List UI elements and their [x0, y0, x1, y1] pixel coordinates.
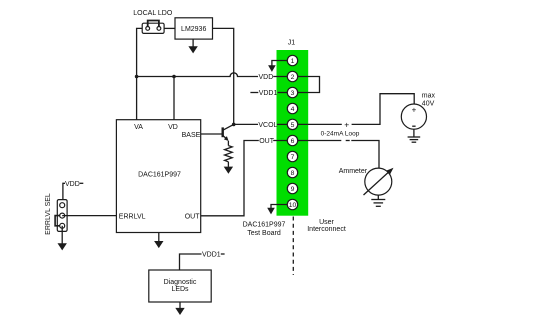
- transistor Q1 emitter: [223, 135, 227, 138]
- svg-text:ERRLVL: ERRLVL: [119, 213, 146, 220]
- wire VDD1 tail dash: [221, 253, 225, 255]
- wire source to ground: [413, 129, 415, 137]
- svg-text:VDD: VDD: [259, 74, 274, 81]
- wire resistor to ground arrow: [227, 162, 229, 167]
- wire VDD rail with hop over LDO output: [137, 73, 258, 77]
- wire jumper pin2-pin3: [293, 77, 320, 93]
- ground arrow below header: [58, 243, 67, 250]
- svg-text:8: 8: [291, 170, 295, 177]
- jumper JP1 shunt cap: [148, 21, 159, 29]
- wire loop plus to source: [352, 94, 415, 125]
- wire VDD1 stub (pin3): [250, 92, 258, 94]
- regulator U2 LM2936: [175, 18, 213, 39]
- svg-text:DAC161P997: DAC161P997: [243, 221, 286, 228]
- svg-text:OUT: OUT: [185, 213, 201, 220]
- connector J1 pin 10: [287, 199, 297, 209]
- svg-text:Ammeter: Ammeter: [339, 168, 368, 175]
- svg-text:10: 10: [289, 202, 297, 209]
- earth ground below source: [408, 137, 421, 142]
- svg-text:Interconnect: Interconnect: [307, 226, 346, 233]
- svg-text:ERRLVL SEL: ERRLVL SEL: [45, 193, 52, 235]
- wire OUT pin to OUT label: [201, 141, 259, 216]
- wire pin1 stub: [272, 61, 293, 66]
- IC U1 DAC161P997 body: [116, 120, 200, 233]
- wire jumper to LM2936: [164, 27, 175, 29]
- ammeter needle line: [364, 172, 389, 195]
- svg-text:5: 5: [291, 122, 295, 129]
- jumper JP1 body: [142, 23, 164, 33]
- wire VD vertical: [173, 77, 175, 120]
- svg-text:+: +: [412, 106, 417, 115]
- wire OUT to pin6: [273, 140, 292, 142]
- connector J1 pin 9: [287, 183, 297, 193]
- connector J1 green strip: [277, 50, 309, 216]
- wire jumper left to VA vertical: [137, 28, 143, 119]
- svg-text:VCOL: VCOL: [258, 122, 277, 129]
- wire VDD to pin2: [273, 76, 292, 78]
- header JP2 shunt bracket: [55, 216, 59, 226]
- ground arrow below LM2936: [192, 39, 194, 47]
- junction dot VCOL node: [232, 123, 236, 127]
- junction dot VD node: [172, 75, 176, 79]
- box Diagnostic LEDs: [149, 270, 211, 302]
- junction dot VA node: [135, 75, 139, 79]
- ground arrow below DAC: [158, 233, 160, 242]
- wire VCOL node to label: [234, 123, 258, 125]
- svg-text:40V: 40V: [422, 100, 435, 107]
- svg-text:+: +: [344, 120, 349, 130]
- svg-text:3: 3: [291, 90, 295, 97]
- ammeter needle arrow: [387, 168, 394, 175]
- svg-text:4: 4: [291, 106, 295, 113]
- connector J1 pin 8: [287, 167, 297, 177]
- svg-text:VDD1: VDD1: [259, 90, 278, 97]
- svg-text:OUT: OUT: [259, 138, 275, 145]
- svg-text:LM2936: LM2936: [181, 26, 206, 33]
- earth ground below ammeter: [371, 200, 385, 207]
- header JP2 pin circles: [60, 203, 65, 208]
- connector J1 pin 4: [287, 103, 297, 113]
- svg-text:1: 1: [291, 58, 295, 65]
- svg-text:VDD: VDD: [65, 181, 80, 188]
- ground arrow below LEDs: [175, 308, 184, 315]
- wire pin10 stub: [271, 205, 293, 209]
- wire loop minus to ammeter: [351, 141, 379, 169]
- dashed boundary line: [292, 217, 294, 276]
- svg-text:LEDs: LEDs: [171, 286, 189, 293]
- wire ERRLVL to DAC: [62, 215, 116, 217]
- resistor R1: [225, 146, 233, 162]
- wire BASE to transistor: [201, 133, 223, 135]
- svg-text:J1: J1: [288, 40, 296, 47]
- transistor Q1 base bar: [221, 127, 223, 137]
- ammeter M1 circle: [365, 168, 392, 195]
- svg-text:2: 2: [291, 74, 295, 81]
- svg-text:VD: VD: [168, 124, 178, 131]
- wire pin6 to loop minus: [293, 140, 342, 142]
- wire emitter to resistor: [227, 141, 229, 146]
- wire header bottom to ground: [61, 226, 63, 244]
- wire ammeter to ground: [377, 195, 379, 199]
- svg-text:7: 7: [291, 154, 295, 161]
- arrow pin10 down: [267, 208, 275, 215]
- source V1 circle: [401, 104, 426, 129]
- connector J1 pin 3: [287, 87, 297, 97]
- svg-text:max: max: [422, 92, 436, 99]
- label minus (loop): [346, 140, 350, 142]
- connector J1 pin 2: [287, 71, 297, 81]
- svg-text:LOCAL LDO: LOCAL LDO: [133, 10, 173, 17]
- connector J1 pin 6: [287, 135, 297, 145]
- connector J1 pin 5: [287, 119, 297, 129]
- wire VDD down to header: [63, 183, 65, 205]
- connector J1 pin 1: [287, 55, 297, 65]
- wire VDD tail dash: [80, 182, 84, 184]
- wire VDD1 to pin3: [278, 92, 293, 94]
- svg-text:Test Board: Test Board: [247, 230, 281, 237]
- svg-text:DAC161P997: DAC161P997: [138, 172, 181, 179]
- ground arrow below R1: [224, 167, 233, 174]
- svg-text:VA: VA: [134, 124, 143, 131]
- connector J1 pin 7: [287, 151, 297, 161]
- wire LEDs to ground: [179, 302, 181, 308]
- wire pin5 to loop plus: [293, 123, 342, 125]
- svg-text:9: 9: [291, 186, 295, 193]
- transistor Q1 collector: [223, 124, 234, 130]
- wire VCOL to pin5: [277, 123, 293, 125]
- wire LM2936 output down to VCOL node: [213, 28, 234, 124]
- wire VDD1 to LEDs box: [180, 254, 202, 270]
- svg-text:0-24mA Loop: 0-24mA Loop: [321, 130, 360, 137]
- label minus inside source: [412, 125, 415, 127]
- transistor Q1 emitter arrow: [224, 136, 229, 141]
- header JP2 ERRLVL SEL body: [57, 200, 67, 232]
- svg-text:BASE: BASE: [182, 132, 201, 139]
- svg-text:6: 6: [291, 138, 295, 145]
- jumper JP1 pin circles: [146, 27, 150, 31]
- arrow pin1 down: [268, 65, 276, 72]
- svg-text:VDD1: VDD1: [202, 252, 221, 259]
